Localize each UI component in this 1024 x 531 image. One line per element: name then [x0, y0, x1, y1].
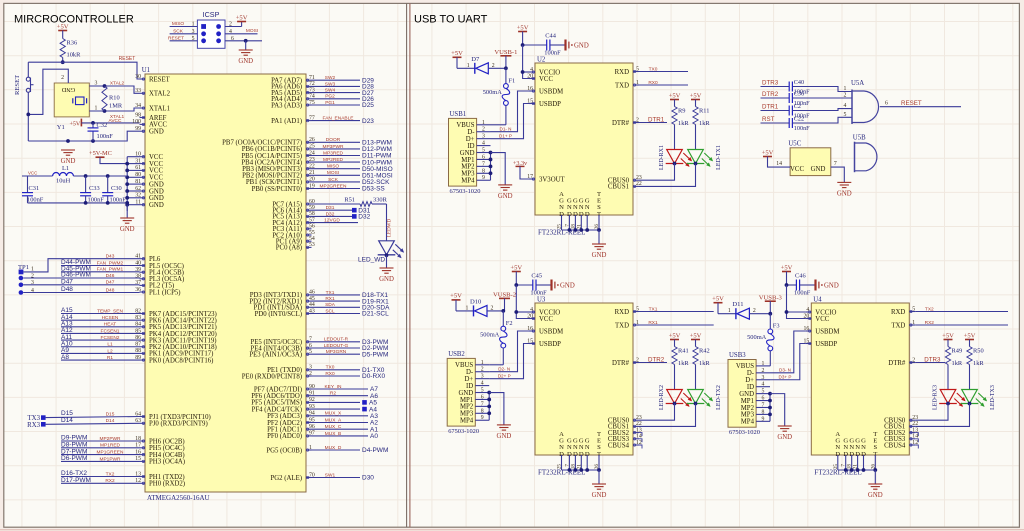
svg-text:ICSP: ICSP [203, 10, 220, 19]
svg-text:RESET: RESET [119, 56, 136, 62]
logic gate U5B [853, 135, 877, 173]
power +5V (R50) [964, 332, 976, 346]
svg-text:VCC: VCC [539, 76, 553, 83]
svg-text:DTR2: DTR2 [648, 356, 665, 363]
svg-text:TXD: TXD [615, 82, 629, 89]
svg-text:MP3GRN: MP3GRN [326, 349, 347, 355]
svg-text:5: 5 [844, 112, 847, 118]
svg-text:SCL: SCL [325, 308, 335, 314]
svg-text:+5V: +5V [70, 121, 81, 127]
svg-text:6: 6 [482, 154, 485, 160]
svg-text:U5A: U5A [851, 80, 864, 87]
connector TP1 [18, 264, 34, 295]
svg-text:R49: R49 [952, 348, 963, 355]
wire +5V to U4 VCC [785, 285, 806, 319]
power +5V (R36) [57, 23, 69, 38]
svg-text:4: 4 [481, 381, 484, 387]
svg-text:R10: R10 [109, 95, 120, 102]
svg-text:D48: D48 [106, 287, 115, 293]
connector USB2 [447, 351, 489, 435]
svg-text:D17-PWM: D17-PWM [61, 477, 91, 484]
svg-text:U3: U3 [537, 297, 546, 304]
wire USB3 VBUS [769, 365, 771, 367]
svg-text:RX3: RX3 [27, 422, 40, 429]
svg-text:RXD: RXD [615, 309, 629, 316]
svg-text:GND: GND [497, 433, 512, 440]
svg-text:D3+ P: D3+ P [779, 375, 792, 380]
svg-text:1kR: 1kR [699, 120, 710, 127]
svg-text:330R: 330R [373, 196, 388, 203]
power +5V (diode D11) [712, 296, 724, 314]
wire reset net [28, 56, 139, 79]
svg-text:MISO: MISO [172, 21, 185, 27]
svg-text:R11: R11 [699, 108, 709, 115]
power +5V (R11) [690, 92, 702, 106]
svg-text:USBDM: USBDM [539, 328, 563, 335]
svg-text:C2: C2 [794, 103, 801, 110]
capacitor C30 [102, 176, 126, 204]
svg-text:2: 2 [753, 308, 756, 314]
svg-text:USBDP: USBDP [815, 341, 837, 348]
power +5V (AVCC) [70, 118, 140, 128]
power port VUSB-2 [493, 292, 516, 313]
svg-text:MP2GREEN: MP2GREEN [320, 183, 347, 189]
net label DTR3 [761, 80, 790, 87]
svg-text:MUX_C: MUX_C [325, 424, 342, 430]
svg-text:R1: R1 [107, 355, 113, 361]
svg-text:D25: D25 [362, 102, 374, 109]
svg-text:8: 8 [762, 409, 765, 415]
U3 right pins [608, 306, 642, 449]
wire U4 RXD [915, 306, 1008, 312]
wire USB3 D- to USBDM [770, 331, 805, 373]
connector USB3 [728, 352, 770, 436]
svg-text:4: 4 [844, 103, 847, 109]
port D46-PWM [23, 272, 139, 279]
wire ICSP left pins [168, 21, 197, 42]
svg-text:6: 6 [762, 396, 765, 402]
wire U4 DTR# [915, 356, 945, 363]
ground (ICSP) [238, 50, 253, 65]
svg-text:6: 6 [885, 101, 888, 107]
svg-text:MOSI: MOSI [327, 170, 339, 176]
crystal Y1 [54, 83, 89, 131]
ground (U2) [592, 244, 607, 259]
svg-text:USBDP: USBDP [539, 101, 561, 108]
svg-text:U4: U4 [813, 297, 822, 304]
wire U2 DTR# [639, 116, 667, 123]
svg-text:C22: C22 [794, 116, 804, 123]
svg-text:LED-RX1: LED-RX1 [659, 145, 665, 170]
svg-text:D10: D10 [470, 298, 482, 305]
svg-text:SCK: SCK [328, 177, 339, 183]
svg-text:CBUS1: CBUS1 [608, 184, 629, 191]
svg-text:1: 1 [481, 360, 484, 366]
svg-text:PA1 (AD1): PA1 (AD1) [271, 118, 302, 125]
svg-text:+5V: +5V [964, 332, 976, 339]
svg-text:PB0 (SS/PCINT0): PB0 (SS/PCINT0) [252, 186, 302, 193]
svg-text:8: 8 [481, 408, 484, 414]
power +5V (ICSP) [236, 14, 248, 21]
svg-text:PF0 (ADC0): PF0 (ADC0) [267, 433, 302, 440]
svg-text:9: 9 [762, 416, 765, 422]
svg-text:+5V: +5V [236, 14, 248, 21]
svg-text:TEMP_SEN: TEMP_SEN [97, 308, 123, 314]
svg-text:MP4: MP4 [460, 418, 474, 425]
port TX3 / D15 [28, 410, 140, 422]
svg-text:L2: L2 [107, 348, 113, 354]
svg-text:9: 9 [482, 175, 485, 181]
svg-text:LED-RX2: LED-RX2 [659, 385, 665, 410]
svg-text:MP2RED: MP2RED [323, 157, 344, 163]
svg-text:CBUS4: CBUS4 [884, 442, 906, 449]
svg-text:500mA: 500mA [480, 331, 500, 338]
power +5V (U2 supply) [517, 24, 529, 45]
svg-text:2: 2 [844, 93, 847, 99]
svg-text:DOOR: DOOR [326, 137, 341, 143]
svg-text:GND: GND [868, 492, 883, 499]
svg-text:100nF: 100nF [794, 290, 811, 297]
svg-text:5: 5 [482, 148, 485, 154]
svg-text:7: 7 [482, 161, 485, 167]
svg-text:+5V: +5V [762, 149, 774, 156]
LED LED-RX1 [639, 145, 692, 180]
capacitor C22 [789, 116, 810, 133]
svg-text:3V3OUT: 3V3OUT [539, 176, 566, 183]
svg-text:PG2: PG2 [325, 94, 335, 100]
section divider [407, 3, 410, 527]
svg-text:PL1 (ICP5): PL1 (ICP5) [149, 289, 181, 296]
port RX3 / D14 [27, 417, 139, 429]
svg-text:XTAL2: XTAL2 [110, 80, 125, 86]
svg-text:D21-SCL: D21-SCL [362, 311, 389, 318]
svg-text:25: 25 [557, 464, 563, 470]
svg-text:3: 3 [95, 81, 98, 87]
power +5V (R42) [690, 332, 702, 346]
svg-text:+5V: +5V [57, 23, 69, 30]
svg-text:D2- N: D2- N [498, 367, 510, 372]
wire U5A output RESET [880, 100, 961, 107]
ground (U4) [868, 484, 883, 499]
svg-text:TXD: TXD [615, 322, 629, 329]
U3 bottom pins [557, 431, 602, 484]
port D16-TX2 [61, 470, 140, 477]
svg-text:D5-PWM: D5-PWM [362, 351, 388, 358]
wire USB2 GND bus [487, 391, 504, 425]
svg-text:LEDOUT-G: LEDOUT-G [324, 343, 349, 349]
svg-text:D0-RX0: D0-RX0 [362, 373, 386, 380]
svg-text:D53-SS: D53-SS [362, 186, 385, 193]
svg-text:100nF: 100nF [794, 125, 810, 132]
svg-text:500mA: 500mA [747, 334, 767, 341]
svg-text:RESET: RESET [901, 100, 922, 107]
svg-text:1MR: 1MR [109, 103, 123, 110]
svg-text:MP1PWR: MP1PWR [99, 456, 121, 462]
svg-text:MUX_A: MUX_A [325, 417, 342, 423]
svg-text:C36: C36 [794, 91, 804, 98]
wire USB1 D+ to USBDP [491, 104, 530, 139]
svg-text:SDA: SDA [325, 302, 336, 308]
svg-text:PJ0 (RXD3/PCINT9): PJ0 (RXD3/PCINT9) [149, 421, 208, 428]
U2 right pins [608, 66, 642, 190]
svg-text:RESET: RESET [14, 75, 21, 95]
svg-text:PD0 (INT0/SCL): PD0 (INT0/SCL) [255, 311, 302, 318]
LED LED-TX3 [915, 385, 996, 426]
capacitor C36 [789, 91, 810, 108]
diode D11 [718, 301, 770, 319]
resistor R10 [102, 86, 123, 111]
svg-text:XTAL2: XTAL2 [149, 91, 171, 98]
svg-text:PE0 (RXD0/PCINT8): PE0 (RXD0/PCINT8) [242, 373, 302, 380]
switch RESET [14, 62, 34, 141]
svg-text:TX2: TX2 [106, 471, 115, 477]
LED LED-RX2 [639, 385, 692, 420]
svg-text:SCK: SCK [173, 29, 184, 35]
capacitor C32 [88, 122, 114, 141]
svg-text:U1: U1 [142, 67, 150, 74]
svg-text:1: 1 [728, 308, 731, 314]
svg-text:D3- N: D3- N [779, 368, 791, 373]
LED LED-RX3 [915, 385, 965, 420]
svg-text:10uH: 10uH [56, 178, 71, 185]
port D47 [23, 279, 139, 286]
svg-text:RX0: RX0 [325, 371, 335, 377]
port D1-TX0 [312, 365, 385, 374]
svg-text:MP1RED: MP1RED [100, 443, 121, 449]
svg-text:DTR#: DTR# [612, 360, 630, 367]
svg-text:SW2: SW2 [325, 75, 336, 81]
svg-text:67503-1020: 67503-1020 [729, 429, 760, 436]
svg-text:LED-TX1: LED-TX1 [716, 145, 722, 170]
svg-text:D47: D47 [61, 279, 73, 286]
svg-text:LED-TX2: LED-TX2 [716, 385, 722, 410]
svg-text:GND: GND [238, 58, 253, 65]
svg-text:1: 1 [466, 305, 469, 311]
svg-text:DTR1: DTR1 [648, 116, 665, 123]
ports D3/D2/D5 [312, 337, 389, 359]
svg-text:PH0 (RXD2): PH0 (RXD2) [149, 481, 185, 488]
power +3.3v [513, 160, 529, 179]
capacitor C44 [521, 33, 566, 57]
connector USB1 [449, 111, 491, 195]
svg-text:PG5 (OC0B): PG5 (OC0B) [266, 447, 302, 454]
svg-text:GND: GND [61, 158, 76, 165]
svg-text:1: 1 [482, 120, 485, 126]
svg-text:RX2: RX2 [105, 478, 115, 484]
power +5V-MC [89, 150, 127, 163]
svg-text:D14: D14 [61, 417, 73, 424]
svg-text:GND: GND [149, 202, 164, 209]
U3 left pins [527, 307, 563, 348]
svg-text:1: 1 [95, 106, 98, 112]
svg-text:D32: D32 [326, 211, 335, 217]
svg-text:1kR: 1kR [952, 360, 963, 367]
svg-text:C44: C44 [545, 33, 556, 40]
svg-text:DTR3: DTR3 [762, 80, 779, 87]
svg-text:5: 5 [192, 36, 195, 42]
svg-text:DTR1: DTR1 [762, 104, 779, 111]
svg-text:D23: D23 [362, 118, 374, 125]
svg-text:PK0 (ADC8/PCINT16): PK0 (ADC8/PCINT16) [149, 357, 213, 364]
svg-text:3: 3 [192, 29, 195, 35]
svg-text:TX0: TX0 [326, 365, 335, 371]
svg-text:+5V: +5V [669, 92, 681, 99]
svg-text:C45: C45 [531, 273, 542, 280]
svg-text:USB1: USB1 [450, 111, 467, 118]
capacitor C40 [789, 79, 810, 96]
port D17-PWM [61, 477, 140, 484]
ground (LED_WD) [379, 268, 394, 283]
wire to U5A [793, 103, 852, 110]
wire TP1 pin1 to PL6 [23, 253, 139, 272]
svg-text:10kR: 10kR [67, 52, 82, 59]
wire U3 RXD [639, 306, 714, 312]
fuse F3 [747, 314, 779, 366]
svg-text:MUX_D: MUX_D [325, 445, 342, 451]
wire USB3 GND bus [768, 392, 785, 426]
svg-text:MISO: MISO [327, 164, 340, 170]
wire USB1 VBUS [491, 124, 506, 126]
resistor R50 [967, 347, 984, 390]
U4 left pins [804, 307, 840, 348]
wire ICSP pin4 MOSI [225, 28, 258, 35]
wire U3 TXD [639, 320, 714, 326]
svg-text:USBDM: USBDM [815, 328, 839, 335]
ports A7-A0 [312, 384, 379, 440]
svg-text:1: 1 [467, 63, 470, 69]
svg-text:PE3 (AIN1/OC3A): PE3 (AIN1/OC3A) [249, 352, 302, 359]
wire U3 DTR# [639, 356, 667, 363]
port D45-PWM [61, 266, 140, 273]
ground (C44) [566, 40, 589, 51]
wire U2 RXD [639, 66, 688, 72]
U2 bottom pins [557, 191, 602, 244]
svg-text:D48: D48 [61, 286, 73, 293]
svg-text:FAN_PWM2: FAN_PWM2 [97, 260, 124, 266]
capacitor C2 [789, 103, 810, 120]
svg-text:3: 3 [762, 375, 765, 381]
svg-text:1kR: 1kR [678, 120, 689, 127]
svg-text:RST: RST [762, 116, 775, 123]
wire to U5A [793, 93, 852, 99]
svg-text:+5V: +5V [690, 92, 702, 99]
svg-text:MUX_B: MUX_B [325, 431, 342, 437]
svg-text:100nF: 100nF [544, 50, 561, 57]
svg-text:RX1: RX1 [648, 320, 658, 326]
svg-text:TXD: TXD [891, 322, 905, 329]
net 12VGD [312, 218, 359, 224]
svg-text:TX1: TX1 [649, 306, 658, 312]
svg-text:9: 9 [481, 415, 484, 421]
net label DTR2 [761, 91, 790, 98]
resistor R49 [945, 347, 962, 390]
svg-text:GND: GND [498, 193, 513, 200]
net label DTR1 [761, 104, 790, 111]
op-amp U1 body ATMEGA2560 [142, 67, 306, 502]
svg-text:VCC: VCC [815, 316, 829, 323]
svg-text:100nF: 100nF [97, 133, 114, 140]
svg-text:C40: C40 [794, 79, 804, 86]
svg-text:D2+ P: D2+ P [498, 373, 511, 378]
svg-text:C32: C32 [97, 122, 108, 129]
U4 bottom pins [833, 431, 878, 484]
svg-text:R50: R50 [973, 348, 984, 355]
svg-text:SW3: SW3 [325, 81, 336, 87]
svg-text:FCSEN1: FCSEN1 [101, 328, 120, 334]
svg-text:GND: GND [560, 282, 575, 289]
svg-text:+5V-MC: +5V-MC [89, 150, 112, 157]
svg-text:1: 1 [762, 361, 765, 367]
svg-text:HCSEN: HCSEN [102, 315, 119, 321]
svg-text:D32: D32 [358, 214, 370, 221]
svg-text:R42: R42 [699, 348, 710, 355]
svg-text:PG1: PG1 [325, 100, 335, 106]
svg-text:CBUS4: CBUS4 [608, 442, 630, 449]
svg-text:PG2 (ALE): PG2 (ALE) [270, 475, 302, 482]
port D23 [312, 116, 375, 125]
svg-text:R51: R51 [344, 196, 355, 203]
svg-text:+5V: +5V [690, 332, 702, 339]
svg-text:12VGD: 12VGD [324, 218, 340, 224]
svg-text:2: 2 [491, 305, 494, 311]
wire U4 TXD [915, 320, 1008, 326]
svg-text:6: 6 [481, 394, 484, 400]
svg-text:5: 5 [481, 388, 484, 394]
resistor R51 [312, 196, 388, 206]
U2 left pins [527, 67, 565, 184]
svg-text:7: 7 [834, 161, 837, 167]
port D44-PWM [61, 259, 140, 266]
ports A15-A8 [61, 307, 140, 361]
net label RST [761, 116, 790, 123]
svg-text:PH3 (OC4A): PH3 (OC4A) [149, 459, 185, 466]
svg-text:GND: GND [824, 282, 839, 289]
svg-text:GND: GND [574, 42, 589, 49]
power +5V (R9) [669, 92, 681, 106]
svg-text:2: 2 [492, 63, 495, 69]
svg-text:4: 4 [229, 29, 232, 35]
wire USB2 D- to USBDM [489, 331, 529, 372]
power +5V (U5C) [762, 149, 790, 167]
wire +5V to U2 VCC [521, 45, 529, 79]
svg-text:LEDWD: LEDWD [388, 219, 393, 237]
capacitor C33 [80, 176, 104, 204]
svg-text:67503-1020: 67503-1020 [450, 188, 481, 195]
LED LED-TX1 [639, 145, 722, 186]
LED LED_WD [358, 241, 404, 268]
svg-text:F2: F2 [506, 320, 513, 327]
wire USB2 D+ to USBDP [489, 344, 529, 379]
ground (U3) [592, 484, 607, 499]
svg-text:D43: D43 [106, 253, 115, 259]
svg-text:C30: C30 [111, 185, 122, 192]
svg-text:R9: R9 [678, 108, 685, 115]
svg-text:KEY_IN: KEY_IN [324, 384, 342, 390]
svg-text:ATMEGA2560-16AU: ATMEGA2560-16AU [147, 494, 210, 502]
svg-text:USB TO UART: USB TO UART [414, 14, 488, 26]
svg-text:LED_WD: LED_WD [358, 257, 385, 264]
capacitor C46 [785, 273, 816, 297]
ports D9-D6 PWM [61, 435, 140, 463]
svg-text:RX0: RX0 [648, 80, 658, 86]
U1 right pins [222, 75, 315, 482]
svg-text:D1+ P: D1+ P [499, 133, 512, 138]
svg-text:3: 3 [481, 374, 484, 380]
port D4-PWM [312, 445, 389, 454]
svg-text:USBDM: USBDM [539, 88, 563, 95]
svg-text:TX2: TX2 [925, 306, 934, 312]
svg-text:U2: U2 [537, 57, 546, 64]
